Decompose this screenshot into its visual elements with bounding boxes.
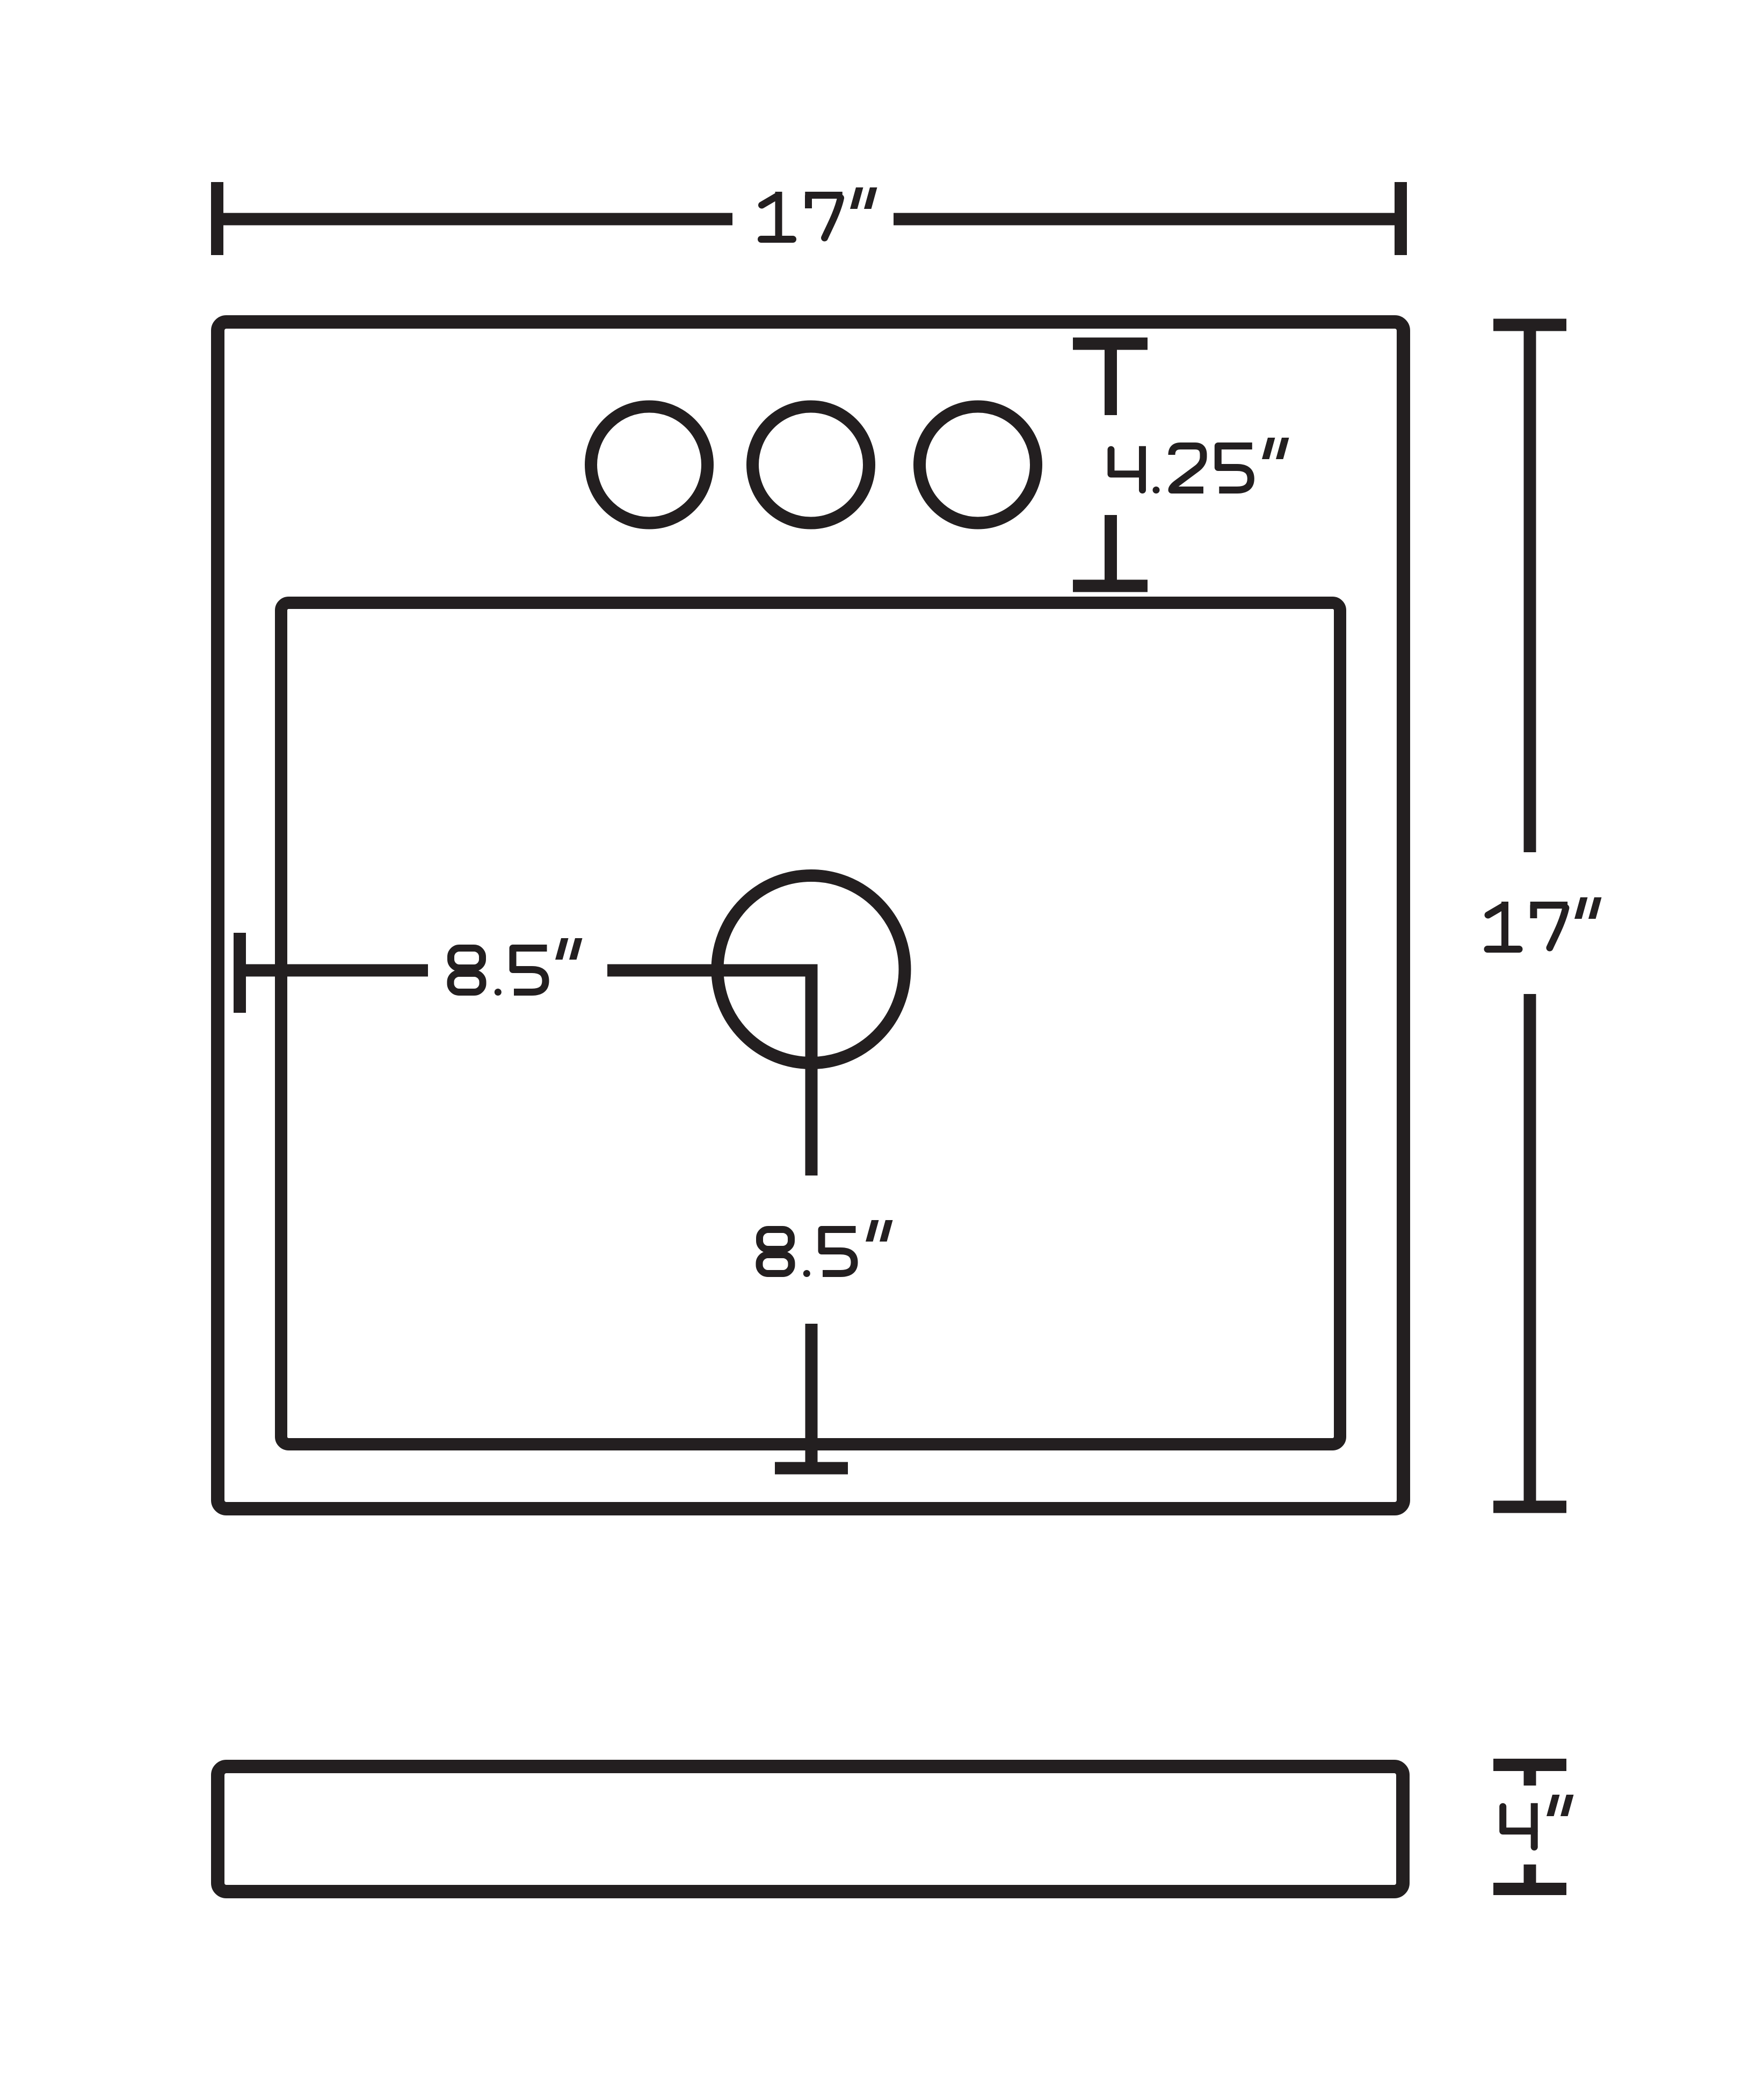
dimension 8.5in horizontal: left line segment xyxy=(240,964,429,977)
right dimension 17in: lower vertical segment xyxy=(1524,994,1536,1501)
label 17 inch (right): double prime xyxy=(1574,897,1588,919)
label 4.25 inch xyxy=(1111,446,1146,494)
label 8.5 inch horizontal xyxy=(451,948,483,992)
dimension 8.5in vertical: bottom T-bar xyxy=(775,1462,848,1475)
label 8.5 inch vertical: double prime xyxy=(866,1220,879,1242)
faucet hole center xyxy=(753,407,869,523)
right dimension 17in: top T-bar xyxy=(1493,319,1566,331)
side profile slab rectangle xyxy=(218,1767,1403,1892)
label 17 inch (top) xyxy=(761,192,793,240)
right dimension 17in: bottom T-bar xyxy=(1493,1501,1566,1513)
faucet hole left xyxy=(591,407,708,523)
dimension 4in: upper stub xyxy=(1524,1771,1536,1786)
dimension 4in: lower stub xyxy=(1524,1864,1536,1883)
top dimension 17in: left line segment xyxy=(217,213,733,226)
dimension 8.5in horizontal: right segment with corner down to drain xyxy=(607,970,811,1176)
label 17 inch (right) xyxy=(1487,902,1519,949)
dimension 4in: bottom T-bar xyxy=(1493,1883,1566,1895)
dimension 4.25in: top T-bar xyxy=(1073,338,1148,350)
drain hole circle xyxy=(717,876,905,1063)
dimension 4.25in: lower vertical segment xyxy=(1105,515,1117,586)
label 17 inch (top): double prime xyxy=(850,187,863,209)
dimension 4.25in: upper vertical segment xyxy=(1105,350,1117,415)
top dimension 17in: right line segment xyxy=(894,213,1401,226)
label 8.5 inch vertical xyxy=(759,1230,792,1274)
faucet hole right xyxy=(920,407,1036,523)
label 8.5 inch horizontal: double prime xyxy=(555,938,569,960)
top dimension 17in: right end tick xyxy=(1395,182,1407,255)
sink outer rim (plan view square) xyxy=(218,322,1404,1509)
right dimension 17in: upper vertical segment xyxy=(1524,331,1536,853)
label 4 inch xyxy=(1503,1803,1538,1851)
dimension 8.5in vertical: lower line segment xyxy=(805,1324,818,1468)
dimension 4in: top T-bar xyxy=(1493,1759,1566,1771)
label 4.25 inch: double prime xyxy=(1262,438,1275,459)
sink basin (inner rectangle) xyxy=(281,603,1340,1445)
dimension 4.25in: bottom T-bar xyxy=(1073,580,1148,592)
dimension 8.5in horizontal: left tick xyxy=(234,933,246,1013)
top dimension 17in: left end tick xyxy=(211,182,223,255)
label 4 inch: double prime xyxy=(1547,1795,1560,1816)
